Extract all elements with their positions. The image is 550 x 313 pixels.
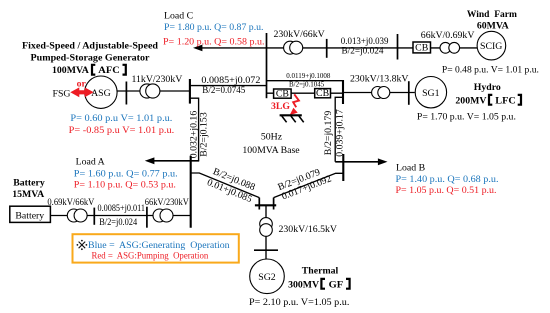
- svg-text:P= 1.20 p.u. Q= 0.58 p.u.: P= 1.20 p.u. Q= 0.58 p.u.: [163, 37, 265, 48]
- svg-text:200MV: 200MV: [455, 95, 486, 106]
- svg-text:B/2=j0.024: B/2=j0.024: [342, 46, 384, 57]
- svg-text:P= -0.85 p.u V= 1.01 p.u.: P= -0.85 p.u V= 1.01 p.u.: [69, 125, 175, 136]
- svg-text:or: or: [77, 78, 87, 89]
- svg-text:Fixed-Speed / Adjustable-Speed: Fixed-Speed / Adjustable-Speed: [22, 40, 159, 51]
- svg-text:0.69kV/66kV: 0.69kV/66kV: [47, 197, 94, 208]
- svg-text:ASG: ASG: [91, 88, 111, 99]
- svg-text:3LG: 3LG: [271, 101, 290, 112]
- svg-text:P= 1.80 p.u. Q= 0.87 p.u.: P= 1.80 p.u. Q= 0.87 p.u.: [164, 22, 264, 33]
- svg-text:Load C: Load C: [164, 11, 193, 22]
- svg-text:230kV/16.5kV: 230kV/16.5kV: [279, 224, 338, 235]
- svg-text:0.0119+j0.1008: 0.0119+j0.1008: [286, 72, 331, 80]
- svg-text:B/2=0.0745: B/2=0.0745: [202, 85, 245, 96]
- svg-text:66kV/0.69kV: 66kV/0.69kV: [421, 30, 475, 41]
- svg-text:B/2=j0.153: B/2=j0.153: [198, 112, 209, 157]
- svg-text:15MVA: 15MVA: [12, 189, 44, 200]
- svg-text:Red = ASG:Pumping Operation: Red = ASG:Pumping Operation: [92, 250, 209, 261]
- svg-text:100MVA Base: 100MVA Base: [242, 145, 300, 156]
- svg-text:CB: CB: [316, 88, 330, 99]
- svg-text:P= 0.48 p.u. V= 1.01 p.u.: P= 0.48 p.u. V= 1.01 p.u.: [442, 65, 539, 76]
- svg-text:11kV/230kV: 11kV/230kV: [132, 74, 183, 85]
- svg-text:Battery: Battery: [13, 178, 45, 189]
- svg-text:P= 1.10 p.u. Q= 0.53 p.u.: P= 1.10 p.u. Q= 0.53 p.u.: [74, 180, 176, 191]
- svg-text:0.0085+j0.011: 0.0085+j0.011: [98, 203, 146, 214]
- svg-text:60MVA: 60MVA: [477, 20, 509, 31]
- svg-text:FSG: FSG: [53, 88, 71, 99]
- svg-text:P= 1.05 p.u. Q= 0.51 p.u.: P= 1.05 p.u. Q= 0.51 p.u.: [396, 185, 497, 196]
- svg-text:LFC: LFC: [495, 95, 516, 106]
- svg-text:P= 1.60 p.u. Q= 0.77 p.u.: P= 1.60 p.u. Q= 0.77 p.u.: [74, 169, 178, 180]
- svg-text:230kV/13.8kV: 230kV/13.8kV: [350, 74, 409, 85]
- svg-text:50Hz: 50Hz: [261, 131, 283, 142]
- svg-text:SCIG: SCIG: [480, 41, 502, 52]
- svg-text:P= 2.10 p.u. V=1.05 p.u.: P= 2.10 p.u. V=1.05 p.u.: [249, 297, 349, 308]
- svg-text:P= 1.70 p.u. V= 1.05 p.u.: P= 1.70 p.u. V= 1.05 p.u.: [417, 111, 516, 122]
- svg-text:P= 1.40 p.u. Q= 0.68 p.u.: P= 1.40 p.u. Q= 0.68 p.u.: [396, 174, 499, 185]
- svg-text:Thermal: Thermal: [302, 266, 339, 277]
- svg-text:Battery: Battery: [15, 211, 44, 222]
- svg-text:Load A: Load A: [76, 156, 105, 167]
- svg-text:100MVA: 100MVA: [52, 65, 89, 76]
- svg-text:B/2=j0.024: B/2=j0.024: [99, 217, 137, 228]
- svg-text:300MV: 300MV: [288, 280, 319, 291]
- svg-text:Pumped-Storage Generator: Pumped-Storage Generator: [31, 53, 151, 64]
- svg-text:B/2=j0.179: B/2=j0.179: [323, 111, 334, 156]
- svg-text:SG1: SG1: [422, 88, 440, 99]
- svg-text:SG2: SG2: [258, 272, 276, 283]
- svg-text:66kV/230kV: 66kV/230kV: [145, 197, 189, 208]
- svg-text:CB: CB: [276, 88, 290, 99]
- svg-text:0.039+j0.17: 0.039+j0.17: [334, 109, 345, 157]
- svg-text:AFC: AFC: [98, 65, 120, 76]
- svg-text:Load B: Load B: [396, 162, 426, 173]
- svg-text:230kV/66kV: 230kV/66kV: [274, 29, 325, 40]
- svg-text:Wind Farm: Wind Farm: [467, 9, 517, 20]
- svg-text:GF: GF: [329, 280, 344, 291]
- svg-text:P= 0.60 p.u V= 1.01 p.u.: P= 0.60 p.u V= 1.01 p.u.: [70, 113, 172, 124]
- svg-text:Hydro: Hydro: [474, 82, 501, 93]
- svg-text:CB: CB: [415, 43, 429, 54]
